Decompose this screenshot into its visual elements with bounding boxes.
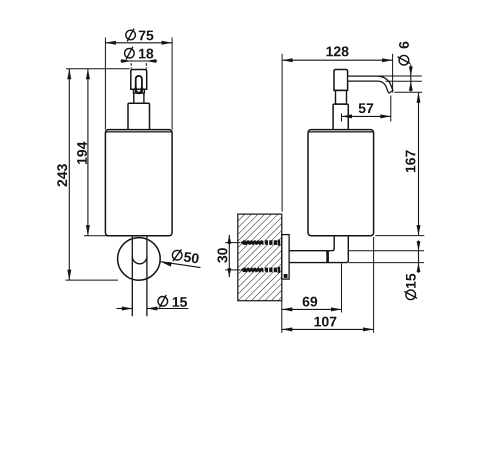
dim d6 label (398, 42, 411, 65)
dim 57 extension right (390, 96, 392, 122)
dim 57 line (342, 115, 391, 117)
dim d75 extension left (104, 38, 106, 130)
side view pump head (334, 70, 348, 91)
front view pump head (131, 70, 147, 90)
side view arm upper outline (289, 236, 334, 251)
dim d15 front tail right (147, 308, 188, 310)
front view pump neck (134, 93, 144, 103)
dim 107 label (315, 317, 322, 327)
front view bottle shoulder line (106, 131, 172, 133)
front view pump base (128, 103, 150, 129)
dim 30 label (217, 256, 227, 263)
dim 167 extension bottom (375, 235, 424, 237)
side view bottle body (308, 130, 374, 236)
dim d15 side extension lower (349, 262, 424, 264)
dim 30 line (228, 235, 230, 277)
dim 194 bottom extension line (84, 235, 113, 237)
dim 107 extension right (373, 237, 375, 333)
dim d15 side extension upper (349, 250, 424, 252)
dim 69/107 wall face extension (281, 301, 283, 333)
dim 57 label (359, 103, 366, 113)
front view post left edge (131, 236, 133, 317)
front view wall flange circle (118, 238, 161, 281)
dim 243/194 top extension line (66, 68, 130, 70)
dim d15 side arrows (418, 240, 420, 273)
front view nozzle slot (136, 76, 142, 93)
side view pump base (333, 104, 348, 129)
dim d50 label (172, 248, 200, 265)
dim d6 extension upper (379, 75, 422, 77)
dim 243 line (68, 69, 70, 280)
dim d6 line (410, 65, 412, 92)
side view bottle shoulder line (308, 131, 373, 133)
front view post right edge (146, 236, 148, 317)
wall anchor upper (244, 240, 278, 245)
dim d15 front label (158, 297, 168, 307)
dim 167 label (406, 166, 416, 173)
dim 194 label (77, 157, 87, 164)
dim 57 extension left (341, 114, 343, 122)
side view wall hatched section (238, 214, 282, 301)
side view pump neck (336, 90, 347, 104)
dim 194 line (87, 69, 89, 236)
dim 69 extension right (341, 264, 343, 313)
dim d18 dashed extension right (145, 63, 147, 69)
dim d18 label (125, 48, 135, 58)
dim d15 side label (404, 274, 417, 300)
dim 69 label (303, 297, 310, 307)
dim d75 extension right (171, 38, 173, 130)
dim 128 label (327, 47, 334, 57)
wall anchor lower (244, 268, 278, 273)
dim d18 dashed extension left (130, 63, 132, 69)
dim d15 front tail left (117, 308, 133, 310)
dim 167 line (418, 92, 420, 235)
front view pump collar (133, 89, 144, 93)
dim 243 bottom extension line (66, 279, 119, 281)
dim 243 label (57, 180, 67, 187)
dim 167 extension top (394, 91, 422, 93)
dim d6 extension lower (386, 80, 422, 82)
dim 69 line (282, 308, 342, 310)
front view nozzle slot dark bottom (136, 88, 142, 93)
dim 128 extension right (392, 54, 394, 93)
dim 30 extension lower (225, 269, 240, 271)
dim d75 line (105, 42, 172, 44)
dim d75 label (126, 30, 136, 40)
dim 128 line (282, 59, 393, 61)
side view mounting plate (282, 235, 289, 280)
side view arm joint seam (326, 251, 329, 263)
dim 107 line (282, 328, 374, 330)
dim 30 extension upper (225, 242, 240, 244)
side view arm lower outline (289, 236, 348, 263)
dim d50 leader (161, 262, 201, 268)
front view arm end arc (132, 257, 147, 264)
dim d18 line (120, 60, 157, 62)
front view bottle body (105, 130, 172, 236)
dim 128 extension left / wall face line (281, 54, 283, 212)
side view spout (347, 79, 391, 92)
side view set screw (284, 274, 288, 278)
